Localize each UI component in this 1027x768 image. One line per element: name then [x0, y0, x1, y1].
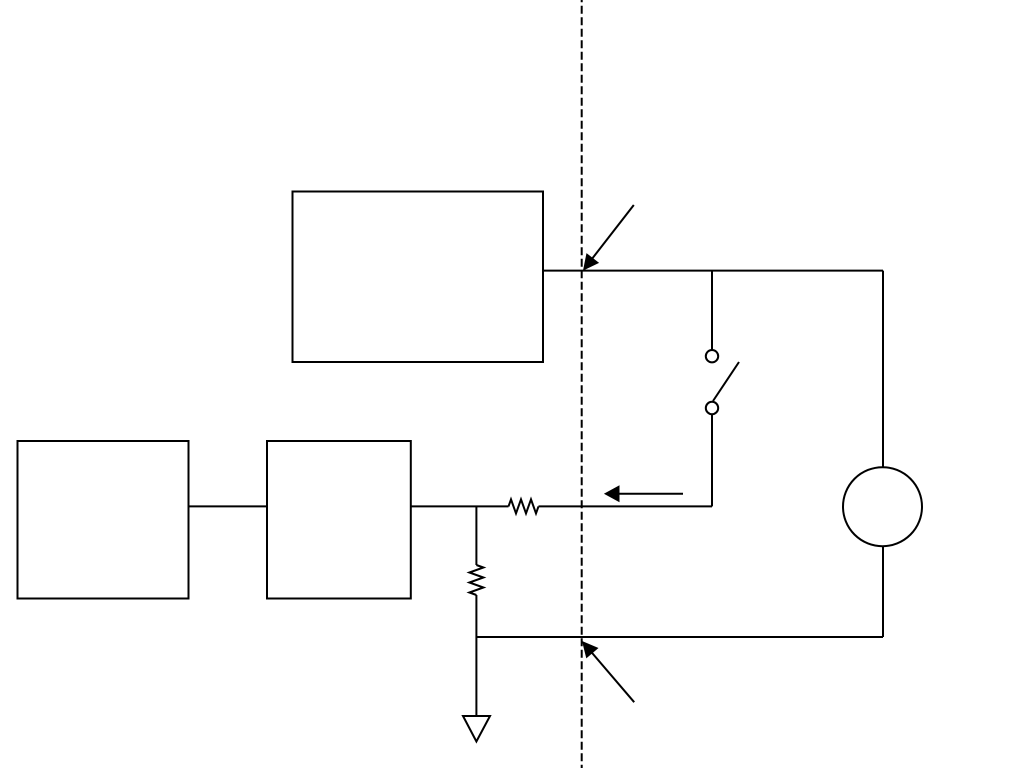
resistor R2 [469, 565, 483, 595]
block B1 (top box) [293, 192, 544, 363]
wire from resistor R2 to ground [475, 595, 477, 716]
wire right vertical branch [882, 271, 884, 637]
switch S1 lower contact [706, 402, 718, 414]
wire from block B1 to right branch [543, 270, 883, 272]
source V1 (circle) [843, 467, 922, 546]
wire from resistor R1 to switch S1 [539, 505, 713, 507]
wire from block B3 to resistor R1 [411, 505, 509, 507]
annotation arrow A2 (middle, pointing left) [604, 485, 683, 502]
wire between block B2 and block B3 [189, 505, 268, 507]
switch S1 upper lead [711, 271, 713, 350]
boundary dashed line [581, 0, 583, 768]
switch S1 blade [713, 362, 739, 401]
wire bottom return [476, 636, 883, 638]
resistor R1 [509, 499, 539, 513]
annotation arrow A3 (bottom, pointing at boundary crossing) [582, 641, 634, 702]
switch S1 lower lead [711, 415, 713, 507]
annotation arrow A1 (top, pointing at boundary crossing) [583, 205, 634, 271]
block B3 (middle box) [267, 441, 411, 599]
node junction at resistor divider [475, 506, 477, 565]
switch S1 upper contact [706, 350, 718, 362]
ground [463, 716, 490, 742]
block B2 (left box) [18, 441, 189, 599]
